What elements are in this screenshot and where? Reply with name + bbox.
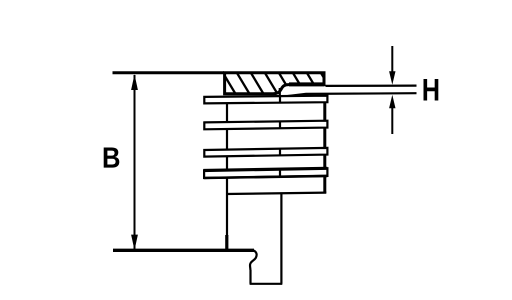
stem left edge [226, 194, 228, 236]
body section 4 [227, 176, 325, 194]
body bottom edge [226, 193, 326, 194]
arrowhead B bottom [131, 235, 138, 251]
dimension line H upper [391, 46, 393, 75]
lower stem bottom edge [250, 283, 283, 285]
dimension line H lower [391, 106, 393, 134]
arrowhead B top [131, 74, 138, 90]
lower stem left edge [249, 270, 251, 284]
arrowhead H down [389, 71, 395, 85]
break squiggle [250, 250, 257, 270]
dimension line B [134, 75, 136, 249]
label B [104, 147, 120, 167]
fin 4 [203, 168, 327, 178]
leader notch drop [279, 88, 281, 103]
extension line bottom (B) [113, 249, 254, 252]
stem right edge [280, 193, 282, 284]
leader line upper (H) [326, 84, 417, 87]
arrowhead H up [389, 95, 395, 108]
label H [424, 79, 439, 101]
cap flange (hatched section) [206, 68, 336, 98]
leader line lower (H) [281, 93, 417, 97]
fin 3 [204, 148, 327, 157]
extension line top (B) [113, 71, 225, 74]
fin 2 [204, 121, 327, 130]
body section 3 [227, 155, 325, 171]
fin 1 [204, 96, 327, 104]
body section 1 [227, 102, 325, 123]
body section 2 [227, 128, 325, 150]
